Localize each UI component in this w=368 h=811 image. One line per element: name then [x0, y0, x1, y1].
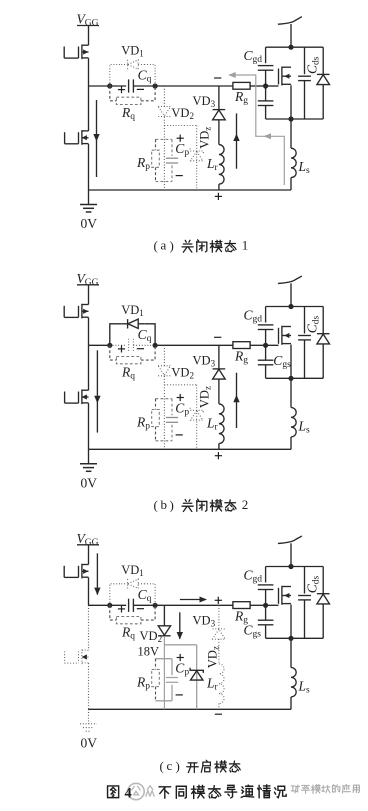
svg-text:(: (: [154, 238, 158, 253]
capacitor Cgd (b): [258, 324, 274, 326]
watermark gongzhong text: [132, 786, 140, 795]
wire VD2 branch dotted (a): [163, 86, 165, 107]
wire Cgs branch lower (c): [265, 625, 267, 638]
wire Rp branch (c): [155, 659, 157, 670]
node dot right of Cq (c): [153, 603, 158, 608]
wire to ground (b): [88, 449, 90, 464]
wire power MOSFET source (a): [290, 85, 292, 119]
minus mark of Cq (c): [137, 608, 144, 610]
node dot source (a): [288, 116, 293, 121]
wire VD3 to Lr (c): [218, 639, 220, 664]
zener diode VDz (a): [190, 148, 203, 153]
wire drain arc to external (b): [278, 276, 302, 284]
node dot right of Cq (b): [153, 343, 158, 348]
current arrow beside VD2 (c): [179, 612, 181, 639]
minus mark gate wire (b): [214, 336, 221, 338]
plus mark of Cq (b): [118, 348, 125, 350]
wire Rq loop (a): [110, 86, 117, 101]
minus mark of Cp (a): [176, 175, 183, 177]
svg-text:b: b: [161, 497, 168, 512]
wire Cgd branch lower (c): [265, 590, 267, 606]
transistor Q1 upper driver MOSFET (a): [81, 45, 83, 60]
capacitor Cgs (c): [258, 619, 274, 621]
transistor Q1 upper driver MOSFET (b): [81, 304, 83, 319]
wire top horizontal (a): [266, 46, 324, 48]
bottom rail wire (a): [89, 189, 292, 191]
transistor Q2 lower driver MOSFET (b): [81, 390, 83, 405]
circuit (c) turn-on mode: [64, 531, 329, 751]
wire power MOSFET source (c): [290, 605, 292, 639]
inductor Ls (b): [291, 408, 296, 437]
wire Rp branch (a): [155, 139, 157, 150]
zener diode VDz (c): [190, 668, 203, 673]
wire arc to top node (b): [290, 283, 292, 306]
zener diode VDz (b): [190, 408, 203, 413]
diode VD1 (b): [127, 319, 129, 328]
wire Q2 source to bottom rail dotted (c): [88, 663, 90, 709]
wire Ls to rail (c): [290, 697, 292, 709]
wire VD2 branch dotted (b): [163, 345, 165, 366]
wire Rg to gate node (a): [250, 85, 266, 87]
diode VD1 (c): [127, 579, 129, 588]
svg-text:(: (: [154, 497, 158, 512]
capacitor Cp (b): [166, 417, 178, 419]
wire Q1 source down to gate node (c): [88, 578, 90, 606]
wire Cds branch upper (b): [304, 307, 306, 334]
gray loop arrow upper (a): [228, 72, 236, 78]
svg-text:): ): [170, 238, 174, 253]
circuit (a) turn-off mode 1: [64, 12, 329, 232]
current arrow down beside Q2 (a): [96, 100, 98, 177]
transistor Q1 upper driver MOSFET (c): [81, 564, 83, 579]
gray current loop path (a): [229, 75, 284, 185]
wire Cp Rp loop (b): [156, 398, 173, 400]
wire VD3 branch (c): [218, 605, 220, 629]
svg-text:a: a: [161, 238, 167, 253]
wire body diode branch upper (a): [322, 47, 324, 74]
node dot left of Cq (a): [107, 83, 112, 88]
gate drive wire left segment (c): [89, 604, 127, 606]
label Cds rotated (a): [305, 56, 322, 74]
wire body diode branch upper (c): [322, 567, 324, 594]
transistor power MOSFET (b): [281, 326, 283, 345]
wire gate stub (c): [266, 604, 279, 606]
plus mark of Cp (b): [177, 397, 184, 399]
inductor Lr (b): [219, 404, 224, 444]
wire VDz branch (b): [196, 385, 198, 411]
label Cds rotated (c): [305, 576, 322, 594]
capacitor Cp (a): [166, 157, 178, 159]
transistor Q2 lower driver MOSFET dotted (c): [81, 650, 83, 665]
plus mark below rail (a): [215, 195, 222, 197]
wire VDz branch (a): [196, 126, 198, 152]
wire Rg to gate node (c): [250, 604, 266, 606]
figure caption main: [108, 786, 119, 798]
wire Cgd branch upper (b): [265, 307, 267, 323]
inductor Ls (c): [291, 668, 296, 697]
gate wire right of Cq (b): [155, 344, 233, 346]
current arrow on gate wire (c): [180, 599, 206, 601]
label VDz rotated (a): [198, 127, 213, 149]
wire link to VDz branch (b): [164, 384, 196, 386]
inductor Ls (a): [291, 148, 296, 177]
wire gate stub (b): [266, 344, 279, 346]
wire Q1 source down to gate node (b): [88, 318, 90, 346]
wire Cds branch upper (c): [304, 567, 306, 594]
capacitor Cds (c): [298, 595, 311, 597]
wire to ground dotted (c): [88, 709, 90, 724]
resistor Rg (a): [233, 82, 250, 89]
wire Cgs branch upper (b): [265, 345, 267, 360]
resistor Rq (c): [116, 617, 140, 624]
wire VGG to Q1 drain (c): [88, 545, 90, 565]
node dot at gate of power MOSFET (c): [263, 603, 268, 608]
wire bottom horizontal of cell (c): [266, 637, 324, 639]
wire gate node down to Q2 drain dotted (c): [88, 605, 90, 650]
current arrow down beside Q1 (c): [96, 553, 98, 594]
wire Cp Rp loop (c): [156, 658, 173, 660]
minus mark gate wire (a): [214, 77, 221, 79]
wire arc to top node (a): [290, 24, 292, 47]
wire VGG to Q1 drain (a): [88, 26, 90, 46]
svg-text:): ): [176, 759, 180, 774]
wire VGG to Q1 drain (b): [88, 285, 90, 305]
svg-text:0V: 0V: [81, 475, 98, 490]
wire Cgs branch upper (c): [265, 605, 267, 620]
wire Cgs branch lower (b): [265, 365, 267, 378]
current arrow up beside Lr (b): [236, 373, 238, 428]
wire Q2 source to bottom rail (a): [88, 144, 90, 190]
svg-text:): ): [170, 497, 174, 512]
wire source to Ls (c): [290, 638, 292, 667]
wire Cds branch lower (c): [304, 600, 306, 638]
resistor Rp (c): [152, 670, 160, 687]
resistor Rq (a): [116, 97, 140, 104]
wire Ls to rail (a): [290, 178, 292, 190]
diode VD3 (a): [213, 109, 226, 111]
wire Cp Rp loop (a): [156, 138, 173, 140]
node dot right of Cq (a): [153, 83, 158, 88]
wire Ls to rail (b): [290, 437, 292, 449]
transistor Q2 lower driver MOSFET (a): [81, 130, 83, 145]
wire Cgd branch upper (c): [265, 567, 267, 583]
label VDz rotated (b): [198, 386, 213, 408]
node dot left of Cq (b): [107, 343, 112, 348]
capacitor Cq dotted (b): [128, 339, 130, 352]
wire arc to top node (c): [290, 543, 292, 566]
wire body diode branch lower (a): [322, 85, 324, 119]
capacitor Cgs (a): [258, 100, 274, 102]
body diode of power MOSFET (a): [317, 73, 330, 75]
plus mark of Cp (c): [177, 657, 184, 659]
wire VD3 to Lr (a): [218, 120, 220, 145]
wire body diode branch lower (b): [322, 344, 324, 378]
capacitor Cgd (a): [258, 65, 274, 67]
inductor Lr (c): [219, 664, 224, 704]
wire source to Ls (a): [290, 119, 292, 148]
label VDz rotated (c): [205, 646, 220, 668]
capacitor Cq on gate wire (a): [128, 79, 130, 92]
node dot left of Cq (c): [107, 603, 112, 608]
wire below VD2 gray (c): [163, 636, 165, 709]
watermark right text: [291, 785, 299, 793]
current arrow down beside Q2 (b): [96, 350, 98, 432]
svg-text:2: 2: [242, 497, 249, 512]
diode VD2 dotted (a): [158, 107, 170, 116]
plus mark of Cq (a): [118, 89, 125, 91]
gray loop arrow lower (a): [264, 133, 272, 139]
wire top horizontal (b): [266, 306, 324, 308]
wire gate node down to Q2 drain (a): [88, 86, 90, 131]
wire Q2 source to bottom rail (b): [88, 403, 90, 449]
body diode of power MOSFET (b): [317, 333, 330, 335]
wire Cgs branch upper (a): [265, 86, 267, 101]
circuit (b) turn-off mode 2: [64, 271, 329, 491]
diode VD3 (b): [213, 368, 226, 370]
diode VD2 (c): [158, 626, 170, 635]
node dot at gate of power MOSFET (b): [263, 343, 268, 348]
svg-text:4: 4: [125, 786, 132, 802]
minus mark of Cq (a): [137, 88, 144, 90]
resistor Rp (a): [152, 150, 160, 167]
node dot source (c): [288, 636, 293, 641]
wire Lr to rail (b): [218, 444, 220, 450]
capacitor Cds (b): [298, 335, 311, 337]
wire Cds branch upper (a): [304, 47, 306, 74]
transistor power MOSFET (c): [281, 586, 283, 605]
capacitor Cp (c): [166, 677, 178, 679]
node dot drain (b): [288, 304, 293, 309]
wire gate stub (a): [266, 85, 279, 87]
wire Cds branch lower (b): [304, 340, 306, 378]
plus mark of Cq (c): [118, 608, 125, 610]
wire Rq loop (c): [110, 605, 117, 620]
capacitor Cds (a): [298, 75, 311, 77]
minus mark of Cp (b): [176, 434, 183, 436]
wire VD3 branch (b): [218, 345, 220, 369]
wire Cgd branch lower (b): [265, 330, 267, 346]
wire VD1 loop (c): [110, 584, 122, 606]
wire source to Ls (b): [290, 378, 292, 407]
wire Lr to rail (c): [218, 704, 220, 710]
plus mark gate wire (c): [215, 599, 222, 601]
plus mark below rail (b): [215, 455, 222, 457]
wire Rq loop (b): [110, 345, 117, 360]
wire Rp branch (b): [155, 399, 157, 410]
inductor Lr (a): [219, 145, 224, 185]
resistor Rg (b): [233, 342, 250, 349]
wire Rg to gate node (b): [250, 344, 266, 346]
wire link to VDz branch (a): [164, 125, 196, 127]
plus mark of Cp (a): [177, 137, 184, 139]
capacitor Cgd (c): [258, 584, 274, 586]
gate drive wire left segment (a): [89, 85, 127, 87]
wire link to VDz branch (c): [164, 644, 196, 646]
current arrow up beside Lr (a): [236, 113, 238, 168]
bottom rail wire (b): [89, 448, 292, 450]
capacitor Cgs (b): [258, 359, 274, 361]
ground 0V dotted (c): [80, 723, 97, 725]
wire body diode branch upper (b): [322, 307, 324, 334]
node dot source (b): [288, 376, 293, 381]
bottom rail wire (c): [89, 708, 292, 710]
gate drive wire left segment (b): [89, 344, 110, 346]
resistor Rg (c): [233, 602, 250, 609]
wire Cgd branch upper (a): [265, 47, 267, 63]
watermark circle logo: [128, 783, 144, 799]
wire to ground (a): [88, 190, 90, 205]
body diode of power MOSFET (c): [317, 593, 330, 595]
node dot drain (c): [288, 564, 293, 569]
wire Cds branch lower (a): [304, 81, 306, 119]
svg-text:c: c: [167, 758, 173, 773]
wire bottom horizontal of cell (b): [266, 377, 324, 379]
wire drain arc to external (a): [278, 17, 302, 25]
wire Cgs branch lower (a): [265, 106, 267, 119]
minus mark of Cq (b): [137, 348, 144, 350]
transistor power MOSFET (a): [281, 67, 283, 86]
wire VD1 loop (a): [110, 65, 122, 87]
svg-text:0V: 0V: [81, 216, 98, 231]
wire VD3 to Lr (b): [218, 379, 220, 404]
wire VD1 loop (b): [110, 324, 122, 346]
node dot at gate of power MOSFET (a): [263, 83, 268, 88]
wire VDz branch (c): [196, 645, 198, 671]
label Cds rotated (b): [305, 316, 322, 334]
capacitor Cq on gate wire (c): [128, 599, 130, 612]
wire Q1 source down to gate node (a): [88, 58, 90, 86]
diode VD3 (c): [213, 628, 226, 630]
wire bottom horizontal of cell (a): [266, 118, 324, 120]
wire Cgd branch lower (a): [265, 70, 267, 86]
svg-text:1: 1: [242, 238, 249, 253]
wire drain arc to external (c): [278, 536, 302, 544]
wire power MOSFET source (b): [290, 345, 292, 379]
resistor Rp (b): [152, 410, 160, 427]
wire gate node down to Q2 drain (b): [88, 345, 90, 390]
ground 0V (b): [80, 463, 97, 465]
diode VD1 (a): [127, 60, 129, 69]
svg-text:(: (: [160, 759, 164, 774]
wire VD2 branch solid (c): [163, 605, 165, 626]
svg-text:18V: 18V: [138, 645, 160, 659]
wire VD3 branch (a): [218, 86, 220, 110]
diode VD2 dotted (b): [158, 366, 170, 375]
node dot drain (a): [288, 45, 293, 50]
resistor Rq (b): [116, 357, 140, 364]
minus mark of Cp (c): [176, 694, 183, 696]
ground 0V (a): [80, 204, 97, 206]
wire body diode branch lower (c): [322, 604, 324, 638]
wire Lr to rail (a): [218, 184, 220, 190]
minus mark below rail (c): [215, 713, 222, 715]
wire top horizontal (c): [266, 566, 324, 568]
svg-text:0V: 0V: [81, 735, 98, 750]
